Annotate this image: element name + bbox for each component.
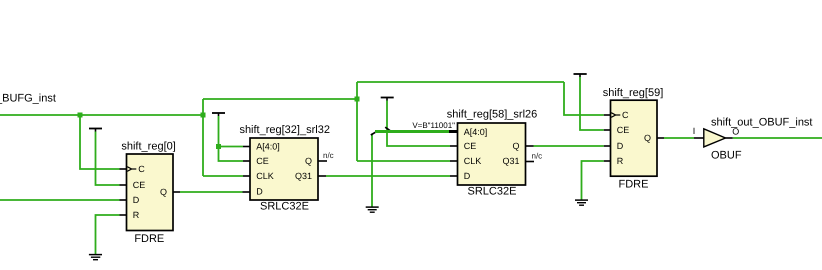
svg-text:shift_reg[59]: shift_reg[59] [603, 87, 664, 99]
svg-text:n/c: n/c [323, 151, 334, 160]
svg-text:FDRE: FDRE [619, 179, 649, 191]
pin stub CE FDRE1 [120, 184, 127, 186]
svg-text:shift_reg[58]_srl26: shift_reg[58]_srl26 [447, 109, 538, 121]
svg-text:CLK: CLK [256, 171, 274, 181]
svg-text:I: I [693, 126, 696, 136]
pin stub Q SRLC32E1 n/c [318, 160, 327, 162]
wire clock upper horizontal to x=357 [203, 98, 357, 100]
svg-text:Q: Q [305, 156, 312, 166]
wire VCC to FDRE1 CE [96, 132, 120, 186]
pin stub D SRLC32E2 [450, 175, 458, 177]
pin stub CLK SRLC32E1 [243, 175, 250, 177]
svg-text:Q: Q [160, 187, 167, 197]
svg-text:R: R [133, 210, 140, 220]
bus A[4:0] SRLC32E2 [375, 130, 449, 133]
pin stub CE SRLC32E2 [450, 145, 458, 147]
svg-text:shift_reg[0]: shift_reg[0] [121, 141, 175, 153]
wire clock branch to FDRE1 C [80, 115, 120, 169]
svg-text:D: D [133, 195, 140, 205]
svg-text:A[4:0]: A[4:0] [256, 142, 280, 152]
wire clock drop to FDRE2 C [564, 82, 604, 115]
svg-text:FDRE: FDRE [134, 233, 164, 245]
pin stub Q31 SRLC32E1 [318, 175, 326, 177]
svg-text:shift_reg[32]_srl32: shift_reg[32]_srl32 [239, 124, 330, 136]
wire shift input to FDRE1 D [0, 199, 120, 201]
power VCC T4 [574, 74, 587, 77]
svg-text:R: R [617, 156, 624, 166]
svg-text:SRLC32E: SRLC32E [260, 200, 309, 212]
wire GND to FDRE2 R [582, 161, 604, 200]
svg-text:V=B"11001": V=B"11001" [412, 121, 455, 130]
flip-flop FDRE shift_reg[0] [121, 141, 175, 246]
svg-text:OBUF: OBUF [711, 150, 742, 162]
svg-text:CLK: CLK [464, 156, 482, 166]
wire clock main horizontal [0, 114, 203, 116]
pin stub A SRLC32E1 [243, 146, 250, 148]
svg-text:D: D [256, 187, 263, 197]
svg-text:Q31: Q31 [295, 171, 312, 181]
power VCC T1 [89, 129, 102, 132]
svg-text:CE: CE [617, 125, 630, 135]
svg-text:shift_out_OBUF_inst: shift_out_OBUF_inst [711, 117, 813, 129]
pin stub Q SRLC32E2 [526, 145, 534, 147]
pin stub CE SRLC32E1 [243, 160, 250, 162]
pin stub Q31 SRLC32E2 n/c [526, 161, 535, 163]
wire FDRE1 Q to SRLC32E1 D [180, 191, 243, 193]
wire OBUF output to edge [733, 137, 822, 139]
svg-text:Q31: Q31 [502, 156, 519, 166]
pin stub C FDRE2 [604, 114, 611, 116]
pin stub I OBUF [694, 137, 704, 139]
svg-text:CE: CE [256, 156, 269, 166]
clock mark FDRE2 [611, 113, 615, 118]
shift register SRLC32E shift_reg[32]_srl32 [239, 124, 330, 212]
wire clock top horizontal to x=564 [357, 81, 564, 83]
wire VCC to SRLC32E1 A and CE [219, 116, 244, 161]
svg-text:C: C [138, 164, 145, 174]
power VCC T3 [381, 98, 394, 101]
pin stub CE FDRE2 [604, 129, 611, 131]
pin stub R FDRE2 [604, 160, 611, 162]
wire VCC riser to SRLC32E2 CE [387, 101, 450, 147]
wire VCC riser to FDRE2 CE [580, 77, 604, 130]
wire clock branch to SRLC32E2 CLK [357, 160, 450, 162]
pin stub O OBUF [726, 137, 733, 139]
svg-text:C: C [622, 110, 629, 120]
svg-text:n/c: n/c [532, 152, 543, 161]
pin stub D FDRE1 [120, 199, 127, 201]
wire GND riser to A bus [371, 134, 373, 208]
bus entry tick VCC bit [385, 127, 391, 132]
svg-text:SRLC32E: SRLC32E [468, 186, 517, 198]
svg-text:_BUFG_inst: _BUFG_inst [0, 93, 56, 105]
buffer OBUF shift_out_OBUF_inst [704, 117, 813, 162]
wire SRLC32E1 Q31 to SRLC32E2 D [326, 175, 450, 177]
pin stub C FDRE1 [120, 168, 127, 170]
ground G3 [575, 200, 588, 205]
clock mark FDRE1 [127, 167, 131, 172]
pin stub CLK SRLC32E2 [450, 160, 458, 162]
bus entry tick GND bit [371, 131, 377, 135]
pin stub A SRLC32E2 bus [449, 130, 458, 133]
wire clock branch to SRLC32E1 CLK [203, 175, 243, 177]
wire FDRE2 Q to OBUF I [664, 137, 694, 139]
svg-text:A[4:0]: A[4:0] [464, 127, 488, 137]
node junction J2 [201, 113, 206, 118]
node junction J4 [216, 144, 221, 149]
wire GND to FDRE1 R [96, 215, 120, 255]
ground G1 [89, 255, 102, 260]
power VCC T2 [212, 113, 225, 116]
node junction J3 [355, 97, 360, 102]
svg-text:CE: CE [464, 141, 477, 151]
svg-text:Q: Q [644, 133, 651, 143]
wire junction J4 to A pin [219, 146, 244, 148]
svg-text:O: O [732, 126, 739, 136]
wire clock vertical riser at x=203 [202, 99, 204, 176]
pin stub D FDRE2 [604, 145, 611, 147]
flip-flop FDRE shift_reg[59] [603, 87, 664, 191]
pin stub D SRLC32E1 [243, 191, 251, 193]
svg-text:CE: CE [133, 180, 146, 190]
svg-text:D: D [617, 141, 624, 151]
wire clock vertical riser at x=357 [356, 82, 358, 161]
pin stub Q FDRE2 [657, 137, 664, 139]
pin stub R FDRE1 [120, 214, 127, 216]
svg-text:D: D [464, 171, 471, 181]
shift register SRLC32E shift_reg[58]_srl26 [447, 109, 538, 198]
ground G2 [366, 207, 379, 212]
wire SRLC32E2 Q to FDRE2 D [534, 145, 604, 147]
pin stub Q FDRE1 [173, 191, 180, 193]
node junction J1 [78, 113, 83, 118]
svg-text:Q: Q [512, 141, 519, 151]
